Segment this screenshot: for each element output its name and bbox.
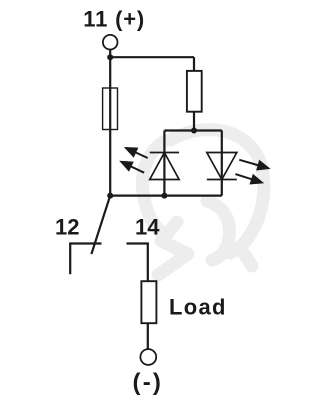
LED D2 triangle <box>207 153 237 180</box>
svg-text:12: 12 <box>55 215 79 240</box>
switch blade 12-14 <box>91 196 110 255</box>
load resistor <box>141 281 156 323</box>
wire: left branch vertical through fuse <box>109 57 111 195</box>
resistor R1 <box>187 71 202 112</box>
wire: resistor to LED box top <box>193 112 195 131</box>
wire: stem below terminal 11 <box>109 50 111 58</box>
contact 12 bracket <box>70 244 101 275</box>
fuse F1 <box>103 88 118 130</box>
terminal circle (-) <box>140 349 156 365</box>
terminal circle 11 (+) <box>103 35 118 50</box>
svg-text:11 (+): 11 (+) <box>83 7 145 32</box>
junction dot LED box top <box>191 128 197 134</box>
wire: right branch down to resistor <box>193 57 195 71</box>
LED D2 emission arrow 2 <box>235 174 264 185</box>
wire: right LED vertical <box>221 131 223 196</box>
wire: top horizontal from node A to right branch <box>110 56 194 58</box>
LED D1 emission arrow 2 <box>119 161 144 173</box>
LED D2 cathode bar <box>207 179 237 181</box>
node B junction dot (left) <box>107 193 113 199</box>
wire: load to terminal (-) <box>147 323 149 349</box>
wire: left LED vertical <box>163 131 165 196</box>
node A junction dot <box>107 54 113 60</box>
wire: LED box top edge <box>164 129 221 131</box>
node B junction dot (LED left leg) <box>161 193 167 199</box>
svg-text:14: 14 <box>135 215 160 240</box>
contact 14 bracket <box>127 244 148 282</box>
watermark logo <box>142 130 264 275</box>
LED D2 emission arrow 1 <box>239 160 270 171</box>
LED D1 emission arrow 1 <box>124 147 148 158</box>
svg-text:Load: Load <box>169 294 227 319</box>
wire: bottom horizontal node B <box>110 195 222 197</box>
LED D1 cathode bar <box>150 152 179 154</box>
LED D1 triangle <box>150 153 179 180</box>
svg-text:(-): (-) <box>133 369 164 396</box>
